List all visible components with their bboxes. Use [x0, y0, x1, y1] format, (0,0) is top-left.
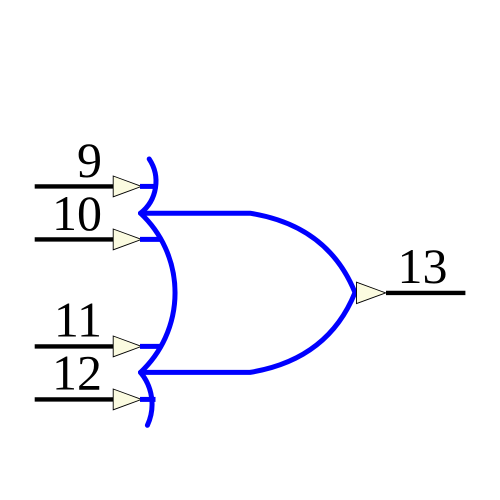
stub input 10	[140, 237, 162, 242]
buffer arrow input 10	[113, 229, 141, 250]
stub input 11	[140, 344, 162, 349]
svg-text:11: 11	[54, 291, 102, 347]
svg-text:9: 9	[77, 132, 102, 188]
buffer arrow input 12	[113, 389, 141, 410]
svg-text:13: 13	[398, 238, 448, 294]
wire input 11	[35, 344, 114, 348]
or-gate lower wing arc	[141, 372, 153, 425]
or-gate bottom edge	[141, 293, 356, 373]
svg-text:12: 12	[52, 344, 102, 400]
stub input 9	[140, 184, 156, 189]
buffer arrow input 11	[113, 336, 141, 357]
buffer arrow output 13	[357, 282, 386, 303]
stub input 12	[140, 397, 156, 402]
wire input 12	[35, 397, 114, 401]
or-gate input side arc	[141, 213, 176, 372]
or-gate top edge	[141, 213, 356, 292]
or-gate upper wing arc	[141, 159, 156, 213]
wire input 9	[35, 184, 114, 188]
svg-text:10: 10	[52, 185, 102, 241]
buffer arrow input 9	[113, 176, 141, 197]
wire input 10	[35, 237, 114, 241]
wire output 13	[386, 291, 465, 295]
